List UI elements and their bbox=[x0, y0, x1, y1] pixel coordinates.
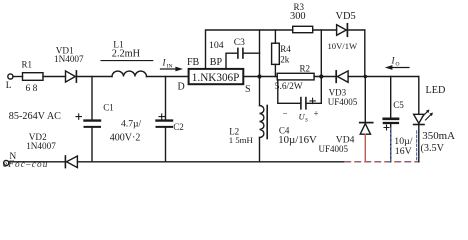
node junction R2 right bbox=[319, 74, 323, 78]
svg-text:6 8: 6 8 bbox=[26, 84, 38, 94]
svg-text:S: S bbox=[305, 118, 308, 124]
wire FB riser and top rail bbox=[206, 30, 293, 69]
diode VD2 bbox=[65, 156, 77, 168]
svg-text:85-264V AC: 85-264V AC bbox=[9, 111, 61, 122]
svg-text:S: S bbox=[245, 84, 251, 95]
resistor R4 bbox=[272, 30, 280, 77]
label C1 value bbox=[103, 103, 141, 144]
wire feedback vertical bbox=[320, 30, 322, 103]
svg-text:+: + bbox=[314, 109, 319, 119]
wire VD1 to L1 bbox=[76, 76, 112, 78]
diode VD4 bbox=[360, 77, 373, 162]
svg-text:400V·2: 400V·2 bbox=[110, 133, 141, 144]
label C5 value bbox=[393, 100, 412, 157]
label VD2 1N4007 bbox=[26, 132, 56, 151]
diode VD3 bbox=[336, 71, 348, 82]
inductor L1 bbox=[112, 71, 147, 76]
bottom rail watermark dash-dot bbox=[345, 161, 419, 163]
label R3 300 bbox=[290, 2, 306, 22]
svg-text:2k: 2k bbox=[280, 54, 290, 64]
resistor R1 bbox=[23, 73, 44, 81]
svg-text:1 5mH: 1 5mH bbox=[229, 135, 254, 145]
svg-text:L: L bbox=[6, 81, 12, 91]
capacitor C5 bbox=[384, 77, 398, 162]
LED bbox=[414, 77, 433, 162]
diode VD1 bbox=[66, 71, 77, 82]
svg-text:5.6/2W: 5.6/2W bbox=[275, 82, 303, 92]
svg-text:−: − bbox=[283, 109, 288, 119]
bottom rail wire bbox=[77, 161, 345, 163]
svg-text:R1: R1 bbox=[22, 60, 33, 70]
zener VD5 bbox=[337, 24, 365, 36]
svg-text:C1: C1 bbox=[103, 103, 114, 113]
output rail wire bbox=[348, 76, 419, 78]
svg-text:BP: BP bbox=[210, 57, 223, 68]
svg-text:10V/1W: 10V/1W bbox=[328, 41, 358, 51]
label R4 2k bbox=[280, 44, 291, 65]
label LED bbox=[422, 85, 455, 142]
capacitor C3 bbox=[238, 48, 260, 58]
capacitor C4 bbox=[278, 80, 322, 109]
label VD3 UF4005 bbox=[328, 87, 358, 107]
inductor L2 bbox=[260, 106, 268, 162]
wire S pin bbox=[243, 76, 277, 78]
svg-text:16V: 16V bbox=[395, 146, 412, 157]
svg-text:VD3: VD3 bbox=[329, 87, 347, 97]
capacitor C1 bbox=[76, 77, 100, 162]
svg-text:IN: IN bbox=[167, 63, 173, 69]
svg-text:2.2mH: 2.2mH bbox=[112, 49, 141, 60]
resistor R3 bbox=[293, 26, 313, 32]
svg-text:UF4005: UF4005 bbox=[328, 97, 358, 107]
svg-text:1.NK306P: 1.NK306P bbox=[192, 72, 240, 84]
terminal N bbox=[4, 152, 17, 166]
wire BP riser bbox=[226, 53, 237, 69]
svg-text:C3: C3 bbox=[234, 38, 245, 48]
svg-text:R4: R4 bbox=[280, 44, 291, 54]
wire R1 to VD1 bbox=[43, 76, 66, 78]
op-amp U1 LNK306P IC box bbox=[189, 69, 244, 84]
svg-text:10µ/16V: 10µ/16V bbox=[278, 134, 317, 146]
resistor R2 bbox=[277, 73, 314, 80]
svg-text:(3.5V: (3.5V bbox=[421, 143, 445, 154]
svg-text:350mA: 350mA bbox=[422, 130, 455, 142]
node S junction bbox=[257, 74, 261, 78]
wire VD5 down bbox=[364, 30, 366, 77]
svg-text:FB: FB bbox=[187, 57, 200, 68]
svg-text:O: O bbox=[396, 61, 400, 67]
label VD1 1N4007 bbox=[54, 46, 84, 65]
svg-text:300: 300 bbox=[290, 11, 306, 22]
svg-text:1N4007: 1N4007 bbox=[26, 141, 56, 151]
svg-text:D: D bbox=[178, 82, 185, 93]
svg-text:4.7µ/: 4.7µ/ bbox=[121, 119, 142, 130]
wire L to R1 bbox=[13, 76, 23, 78]
svg-text:VD5: VD5 bbox=[336, 11, 356, 22]
wire L1 to IC pin D bbox=[147, 76, 189, 78]
watermark blue dashes bbox=[391, 128, 417, 161]
annotation Us bbox=[283, 109, 319, 124]
svg-text:104: 104 bbox=[209, 40, 224, 51]
current arrow IIN bbox=[161, 58, 184, 72]
wire R3 to VD5 bbox=[313, 29, 337, 31]
wire N to VD2 bbox=[9, 161, 66, 163]
svg-text:C2: C2 bbox=[173, 122, 184, 132]
terminal L bbox=[6, 74, 13, 91]
capacitor C2 bbox=[157, 77, 173, 162]
node VD4 junction bbox=[364, 75, 368, 79]
label C4 value bbox=[278, 125, 317, 146]
svg-text:R2: R2 bbox=[300, 63, 311, 73]
svg-text:UF4005: UF4005 bbox=[319, 144, 349, 154]
label L1 2.2mH bbox=[112, 41, 141, 60]
wire S node vertical bbox=[259, 30, 261, 106]
current arrow Io bbox=[385, 56, 409, 70]
svg-text:C5: C5 bbox=[393, 100, 404, 110]
label L2 1.5mH bbox=[229, 126, 254, 145]
svg-text:LED: LED bbox=[426, 85, 446, 96]
svg-text:1N4007: 1N4007 bbox=[54, 54, 84, 64]
wire R2 to VD3 bbox=[314, 76, 336, 78]
